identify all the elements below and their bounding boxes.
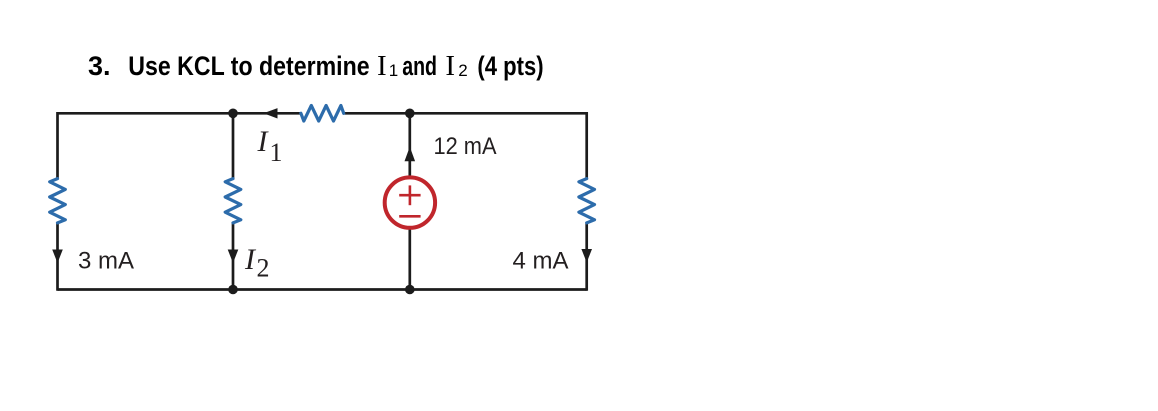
svg-text:I: I [244,243,257,276]
svg-text:2: 2 [458,61,467,80]
svg-text:4 mA: 4 mA [513,248,569,275]
svg-text:I: I [257,125,270,158]
svg-text:Use KCL to determine: Use KCL to determine [128,51,369,81]
svg-text:I: I [445,50,455,82]
svg-text:3.: 3. [88,51,111,81]
svg-text:1: 1 [389,61,398,80]
svg-text:2: 2 [257,254,270,283]
svg-text:and: and [402,51,437,81]
svg-text:I: I [377,50,387,82]
svg-text:1: 1 [270,138,283,167]
svg-text:12 mA: 12 mA [434,133,497,160]
svg-text:(4 pts): (4 pts) [477,51,543,81]
svg-text:3 mA: 3 mA [78,248,134,275]
